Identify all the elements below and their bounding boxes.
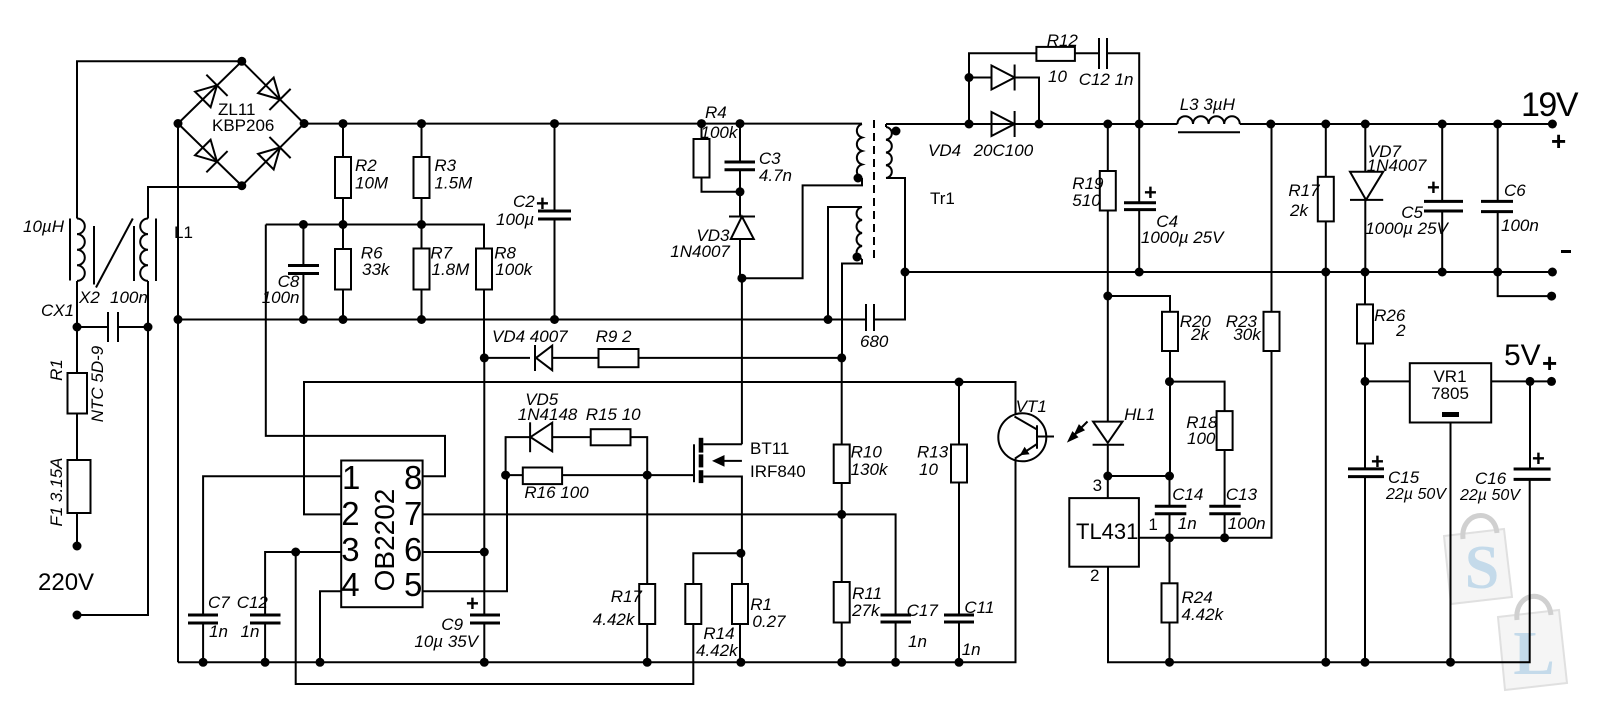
svg-text:R4: R4 — [705, 103, 727, 122]
svg-text:S: S — [1465, 534, 1499, 602]
svg-text:+: + — [466, 591, 479, 616]
svg-text:+: + — [1427, 175, 1440, 200]
svg-text:C14: C14 — [1172, 485, 1203, 504]
svg-text:Tr1: Tr1 — [930, 189, 955, 208]
svg-text:22µ 50V: 22µ 50V — [1385, 486, 1447, 503]
svg-text:27k: 27k — [851, 601, 881, 620]
svg-text:6: 6 — [404, 531, 422, 568]
svg-text:R13: R13 — [917, 443, 949, 462]
svg-text:C13: C13 — [1226, 485, 1258, 504]
svg-text:1.5M: 1.5M — [434, 174, 473, 193]
svg-text:OB2202: OB2202 — [369, 489, 400, 592]
svg-text:C12 1n: C12 1n — [1079, 70, 1134, 89]
svg-text:100µ: 100µ — [496, 210, 534, 229]
svg-text:1n: 1n — [241, 622, 260, 641]
svg-text:2: 2 — [341, 495, 359, 532]
svg-text:3: 3 — [1093, 476, 1102, 495]
svg-text:2k: 2k — [1190, 325, 1210, 344]
svg-text:+: + — [536, 191, 549, 216]
svg-text:680: 680 — [860, 332, 889, 351]
svg-text:R17: R17 — [1288, 181, 1320, 200]
svg-text:R2: R2 — [355, 156, 377, 175]
svg-text:10µ 35V: 10µ 35V — [414, 632, 479, 651]
svg-text:510: 510 — [1072, 191, 1101, 210]
svg-text:L: L — [1513, 620, 1554, 688]
svg-text:100k: 100k — [701, 123, 739, 142]
svg-text:R1: R1 — [47, 359, 66, 381]
svg-text:+: + — [1144, 180, 1157, 205]
svg-text:1n: 1n — [1178, 514, 1197, 533]
svg-text:22µ 50V: 22µ 50V — [1459, 487, 1521, 504]
svg-text:33k: 33k — [362, 260, 391, 279]
svg-text:+: + — [1551, 126, 1566, 156]
svg-text:100: 100 — [1187, 429, 1216, 448]
svg-text:5: 5 — [404, 566, 422, 603]
svg-text:4.42k: 4.42k — [696, 641, 739, 660]
svg-text:10: 10 — [919, 460, 938, 479]
svg-text:VD4 4007: VD4 4007 — [492, 327, 568, 346]
svg-text:R17: R17 — [611, 587, 643, 606]
svg-text:1: 1 — [342, 459, 360, 496]
svg-text:C11: C11 — [964, 598, 994, 617]
svg-text:2: 2 — [1395, 321, 1406, 340]
svg-text:C2: C2 — [513, 192, 535, 211]
svg-text:+: + — [1371, 449, 1384, 474]
svg-text:10: 10 — [1048, 67, 1067, 86]
svg-text:+: + — [1542, 348, 1557, 378]
svg-text:1.8M: 1.8M — [432, 260, 471, 279]
svg-text:20C100: 20C100 — [973, 141, 1034, 160]
svg-text:1: 1 — [1148, 515, 1157, 534]
svg-text:1000µ 25V: 1000µ 25V — [1141, 228, 1225, 247]
svg-text:IRF840: IRF840 — [750, 462, 806, 481]
svg-text:C6: C6 — [1504, 181, 1526, 200]
svg-text:4.42k: 4.42k — [1182, 605, 1225, 624]
svg-text:TL431: TL431 — [1076, 519, 1138, 544]
svg-text:KBP206: KBP206 — [212, 116, 274, 135]
svg-text:100n: 100n — [1501, 216, 1539, 235]
svg-text:130k: 130k — [851, 460, 889, 479]
svg-text:R9 2: R9 2 — [596, 327, 632, 346]
svg-text:2: 2 — [1090, 566, 1099, 585]
svg-text:F1 3.15A: F1 3.15A — [47, 458, 66, 527]
svg-text:100n: 100n — [110, 288, 148, 307]
svg-text:L1: L1 — [174, 223, 193, 242]
svg-text:0.27: 0.27 — [752, 612, 786, 631]
svg-text:X2: X2 — [78, 288, 100, 307]
svg-text:VD4: VD4 — [928, 141, 961, 160]
svg-text:100n: 100n — [262, 288, 300, 307]
svg-text:CX1: CX1 — [41, 301, 74, 320]
svg-text:1n: 1n — [209, 622, 228, 641]
svg-text:30k: 30k — [1233, 325, 1262, 344]
svg-text:VT1: VT1 — [1016, 397, 1047, 416]
svg-text:1000µ 25V: 1000µ 25V — [1365, 219, 1449, 238]
svg-text:1n: 1n — [908, 632, 927, 651]
svg-text:1N4007: 1N4007 — [670, 242, 730, 261]
svg-text:7: 7 — [404, 495, 422, 532]
svg-text:C16: C16 — [1475, 469, 1507, 488]
svg-text:1N4007: 1N4007 — [1367, 156, 1427, 175]
svg-text:R16 100: R16 100 — [524, 483, 589, 502]
svg-text:L3 3µH: L3 3µH — [1180, 95, 1236, 114]
svg-text:1N4148: 1N4148 — [518, 405, 578, 424]
svg-text:220V: 220V — [38, 569, 94, 596]
svg-text:10µH: 10µH — [23, 217, 65, 236]
svg-text:BT11: BT11 — [750, 439, 789, 458]
svg-text:C17: C17 — [907, 601, 939, 620]
svg-text:R12: R12 — [1047, 31, 1079, 50]
svg-text:4.42k: 4.42k — [593, 610, 636, 629]
svg-text:100k: 100k — [495, 260, 533, 279]
svg-text:R15 10: R15 10 — [586, 405, 641, 424]
svg-text:8: 8 — [404, 459, 422, 496]
svg-text:+: + — [1532, 446, 1545, 471]
svg-text:4: 4 — [341, 566, 359, 603]
svg-text:NTC 5D-9: NTC 5D-9 — [88, 345, 107, 422]
svg-text:C7: C7 — [208, 593, 230, 612]
svg-text:C12: C12 — [237, 593, 269, 612]
svg-text:2k: 2k — [1289, 201, 1309, 220]
svg-text:10M: 10M — [355, 174, 389, 193]
svg-text:1n: 1n — [962, 640, 981, 659]
svg-text:7805: 7805 — [1431, 384, 1469, 403]
svg-text:C15: C15 — [1388, 468, 1420, 487]
svg-text:100n: 100n — [1228, 514, 1266, 533]
svg-text:4.7n: 4.7n — [759, 166, 792, 185]
svg-text:R10: R10 — [851, 443, 883, 462]
svg-text:3: 3 — [341, 531, 359, 568]
svg-text:HL1: HL1 — [1124, 405, 1155, 424]
svg-text:R3: R3 — [434, 156, 456, 175]
svg-text:5V: 5V — [1504, 339, 1541, 372]
svg-text:19V: 19V — [1521, 86, 1579, 124]
